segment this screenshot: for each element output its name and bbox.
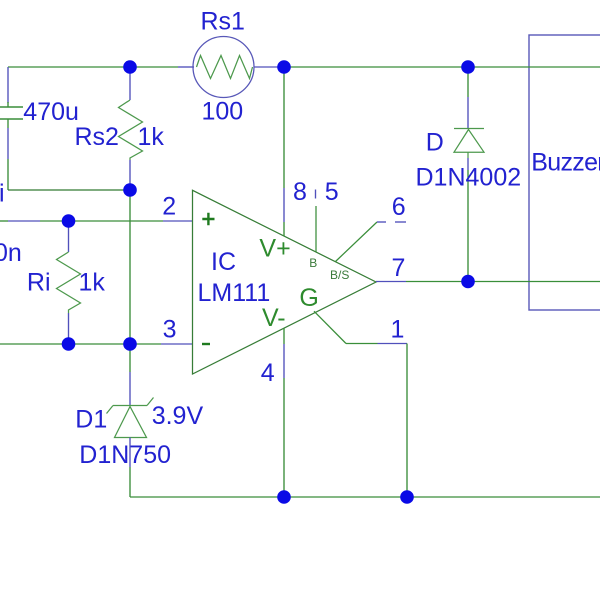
wire: output net to right edge	[406, 281, 600, 283]
svg-text:7: 7	[392, 254, 406, 282]
svg-text:G: G	[299, 284, 318, 312]
svg-text:470u: 470u	[23, 98, 79, 126]
pin 6 diagonal stub	[336, 222, 378, 262]
pin stub bottom (green)	[467, 152, 469, 158]
svg-text:3.9V: 3.9V	[152, 402, 204, 430]
wire: horizontal from cap corner to Rs2 bottom node	[8, 189, 130, 191]
wire: pin 1 horizontal (green)	[346, 343, 378, 345]
capacitor top plate	[0, 106, 23, 108]
svg-text:1: 1	[391, 316, 405, 344]
wire: pin 1 horizontal (blue)	[378, 343, 408, 345]
junction at Rs1 right / V+ column	[277, 60, 291, 74]
wire: down to bottom rail corner	[129, 467, 131, 497]
op-amp triangle body	[193, 190, 377, 374]
label + (non-inverting input)	[202, 213, 214, 225]
svg-text:Ri: Ri	[27, 269, 51, 297]
pin stub top (blue)	[129, 372, 131, 406]
capacitor C 470u (left edge, plates horizontal)	[0, 67, 23, 190]
junction at diode D bottom / output net	[461, 275, 475, 289]
junction at pin 3 net / zener column	[123, 337, 137, 351]
junction at Rs2 top / top rail	[123, 60, 137, 74]
svg-text:D: D	[426, 128, 444, 156]
svg-text:i: i	[0, 180, 5, 208]
svg-text:3: 3	[163, 316, 177, 344]
svg-text:V-: V-	[262, 304, 286, 332]
wire: cap bottom pin (blue)	[7, 128, 9, 159]
svg-text:4: 4	[261, 359, 275, 387]
wire: pin 4 blue segment	[283, 344, 285, 378]
wire: left column down to corner	[7, 159, 9, 190]
wire: down to output net	[467, 170, 469, 282]
svg-text:D1: D1	[75, 406, 107, 434]
diode triangle (anode)	[454, 130, 484, 153]
op-amp U1 LM111 comparator	[193, 190, 377, 374]
wire: cap bottom stub (green)	[7, 119, 9, 128]
resistor Ri (vertical)	[57, 221, 81, 344]
junction at Ri top / pin 2 net	[62, 214, 76, 228]
pin stub top (blue)	[68, 221, 70, 252]
pin stub bottom (blue)	[467, 158, 469, 170]
zener bar left tail	[107, 406, 114, 414]
wire: cap top pin (blue)	[7, 67, 9, 103]
resistor Rs1 (circle style, horizontal)	[193, 37, 254, 98]
pin 5 tick mark	[315, 190, 317, 199]
label - (inverting input)	[202, 343, 210, 345]
zener bar right tail	[147, 398, 154, 406]
Rs1 circle outline	[193, 37, 254, 98]
wire: Rs1 left pin stub (blue)	[178, 66, 194, 68]
pin stub bottom (blue)	[129, 160, 131, 190]
svg-text:D1N4002: D1N4002	[416, 164, 522, 192]
zener diode D1 (D1N750 3.9V)	[107, 344, 154, 497]
pin stub bottom (blue)	[68, 313, 70, 344]
svg-text:B: B	[309, 256, 317, 270]
wire: pin 2 net blue segment	[8, 220, 40, 222]
svg-text:5: 5	[325, 178, 339, 206]
zigzag body	[119, 100, 143, 160]
junction at pin 4 / bottom rail	[277, 490, 291, 504]
pin 5 stub (unconnected)	[315, 206, 317, 252]
svg-text:Rs2: Rs2	[75, 123, 119, 151]
wire: pin 1 vertical down to bottom rail	[406, 344, 408, 498]
wire: from top rail node down (green)	[467, 67, 469, 97]
svg-text:V+: V+	[259, 234, 290, 262]
wire: pin 8 blue segment	[283, 188, 285, 222]
svg-text:B/S: B/S	[330, 268, 349, 282]
svg-text:100: 100	[202, 98, 244, 126]
zigzag body	[57, 252, 81, 313]
pin 6 dash b	[395, 221, 406, 223]
pin stub bottom (blue)	[129, 438, 131, 468]
svg-text:IC: IC	[211, 248, 236, 276]
buzzer box (part outline, cut at right edge)	[529, 35, 600, 310]
wire: top rail from Rs1 to right edge	[284, 66, 600, 68]
wire: top rail from capacitor corner to Rs1	[8, 66, 178, 68]
svg-text:2: 2	[162, 192, 176, 220]
diode cathode bar	[454, 128, 484, 130]
zener triangle (anode)	[115, 407, 147, 438]
wire: from pin3 node down (green)	[129, 344, 131, 372]
pin stub top (blue)	[129, 67, 131, 100]
svg-text:8: 8	[293, 178, 307, 206]
svg-text:1k: 1k	[138, 123, 165, 151]
wire: pin 7 output stub (blue)	[376, 281, 406, 283]
junction at Rs2 bottom node	[123, 183, 137, 197]
zener cathode bar	[113, 405, 147, 407]
wire: pin 2 net from left edge (green)	[0, 220, 8, 222]
junction at pin 1 / bottom rail	[400, 490, 414, 504]
wire: cap top stub (green)	[7, 102, 9, 107]
wire: pin 8 stub into triangle edge	[283, 222, 285, 236]
wire: bottom rail	[130, 496, 600, 498]
pin stub top (blue)	[467, 97, 469, 129]
pin 6 dash a	[377, 221, 386, 223]
capacitor bottom plate	[0, 118, 23, 120]
wire: Rs1 right pin stub (blue)	[254, 66, 284, 68]
svg-text:Buzzer: Buzzer	[531, 148, 600, 176]
wire: pin 4 stub from triangle bottom edge (green)	[283, 328, 285, 344]
wire: pin 4 down to bottom rail	[283, 378, 285, 497]
wire: vertical net from Rs2 bottom node down to pin3 node	[129, 190, 131, 344]
junction at Ri bottom / pin 3 net	[62, 337, 76, 351]
svg-text:Rs1: Rs1	[201, 8, 245, 36]
Rs1 zigzag	[197, 56, 253, 79]
wire: pin 3 net from left edge	[0, 343, 161, 345]
svg-text:1k: 1k	[79, 269, 106, 297]
svg-text:0n: 0n	[0, 239, 22, 267]
junction at diode D top / top rail	[461, 60, 475, 74]
resistor Rs2 (vertical)	[119, 67, 143, 190]
diode D (D1N4002 flyback)	[454, 67, 484, 282]
wire: op-amp pin 3 stub (blue)	[161, 343, 193, 345]
wire: V+ supply net from top rail down to pin 8	[283, 67, 285, 188]
wire: op-amp pin 2 stub (blue)	[163, 220, 193, 222]
wire: pin 2 net green segment	[40, 220, 163, 222]
svg-text:6: 6	[392, 193, 406, 221]
wire: pin 1 diagonal stub	[314, 311, 346, 343]
svg-text:D1N750: D1N750	[79, 441, 171, 469]
svg-text:LM111: LM111	[198, 279, 271, 307]
